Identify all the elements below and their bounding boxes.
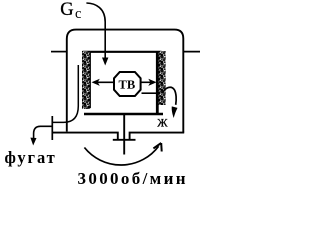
drum bottom edge [84, 113, 163, 115]
svg-text:3000об/мин: 3000об/мин [78, 169, 188, 188]
drum left wall (stippled) [82, 51, 91, 109]
svg-text:ТВ: ТВ [118, 78, 135, 92]
double arrow right segment [141, 81, 152, 83]
feed arrowhead [102, 58, 108, 66]
liquid level line right [142, 92, 157, 94]
rotation arrowhead [153, 143, 161, 152]
svg-text:Ж: Ж [157, 118, 168, 130]
fugat arrowhead [30, 138, 36, 146]
bearing bar [113, 139, 136, 141]
filtrate tube (inner, down the casing wall) [52, 65, 78, 122]
drum right wall solid inner line [156, 52, 159, 115]
drum top edge [83, 51, 162, 53]
shaft [123, 113, 125, 155]
rotation arc [84, 146, 158, 165]
right trunnion [183, 51, 200, 53]
octagon TB [114, 72, 141, 96]
double arrow right head [148, 79, 156, 86]
casing (outer container, rounded top corners) [67, 30, 184, 133]
Zh arrowhead [172, 106, 178, 118]
casing bottom left segment [52, 133, 118, 140]
drain flange bar [51, 116, 53, 140]
double arrow left head [92, 79, 100, 86]
casing bottom right segment [130, 133, 185, 140]
fugat pipe [34, 126, 53, 139]
svg-text:c: c [75, 6, 81, 22]
Zh overflow curve [163, 87, 177, 104]
feed curve from Gc [86, 3, 105, 59]
left trunnion [51, 51, 67, 53]
svg-text:G: G [60, 0, 73, 20]
drum right wall (stippled) [158, 51, 165, 105]
double arrow left segment [96, 81, 114, 83]
svg-text:фугат: фугат [5, 148, 57, 167]
